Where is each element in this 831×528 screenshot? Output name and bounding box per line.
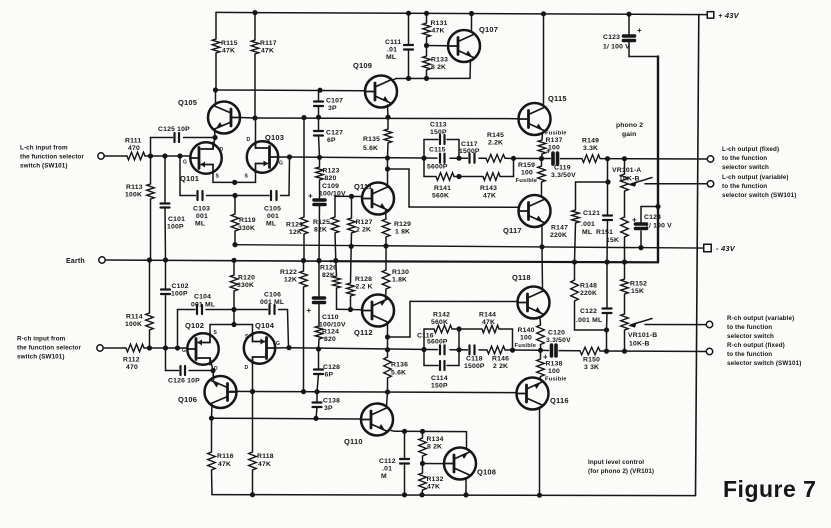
- resistor R152: [621, 279, 629, 294]
- wire C121 to earth: [606, 220, 609, 262]
- wire C112 top: [404, 431, 406, 458]
- wire Q104 source up: [252, 325, 254, 335]
- wire Q106 emitter up: [212, 371, 215, 380]
- svg-text:Q109: Q109: [353, 61, 372, 70]
- capacitor C120 (electrolytic): [550, 345, 554, 356]
- svg-text:C111: C111: [385, 39, 401, 46]
- resistor R126: [333, 276, 341, 288]
- wire C104 left: [178, 309, 196, 311]
- svg-text:S: S: [216, 174, 220, 180]
- svg-text:.001 ML: .001 ML: [576, 317, 602, 324]
- wire R127 bottom: [350, 233, 352, 246]
- wire C114 right: [447, 365, 459, 367]
- svg-text:R111: R111: [125, 138, 141, 145]
- wire C138 bottom stub: [316, 407, 317, 418]
- svg-text:R140: R140: [518, 327, 535, 334]
- svg-text:560K: 560K: [432, 193, 449, 200]
- svg-text:R131: R131: [431, 20, 448, 27]
- svg-text:L-ch input from: L-ch input from: [20, 145, 68, 152]
- resistor R146: [487, 346, 505, 354]
- wire C126 right: [189, 370, 213, 372]
- svg-text:82K: 82K: [314, 227, 327, 234]
- node R127/R128 -43V: [349, 244, 354, 249]
- svg-text:R144: R144: [479, 312, 496, 319]
- wire branch down: [512, 329, 514, 350]
- wire branch up: [513, 158, 515, 176]
- svg-text:R122: R122: [280, 269, 297, 276]
- wire C106 right: [279, 309, 288, 311]
- wire node to C119: [542, 158, 551, 160]
- capacitor C106: [268, 305, 270, 314]
- resistor R131: [423, 23, 431, 37]
- wire Q101 source down: [212, 174, 214, 183]
- wire R121 to earth: [303, 234, 305, 261]
- node network right: [511, 156, 516, 161]
- wire C118 to R146: [479, 349, 487, 351]
- transistor Q105: [208, 102, 240, 134]
- node R128 bottom: [348, 307, 353, 312]
- node FET sources lower: [231, 322, 236, 327]
- terminal L-ch output fixed: [707, 156, 713, 162]
- wire main signal line L: [290, 157, 438, 158]
- node R121 tap: [301, 115, 306, 120]
- svg-text:M: M: [381, 473, 387, 480]
- wire C122 node down: [606, 330, 608, 351]
- wire C107 top stub: [318, 90, 320, 100]
- wire C119 to R149: [561, 158, 583, 160]
- svg-text:to the function: to the function: [722, 183, 767, 190]
- svg-text:1/ 100 V: 1/ 100 V: [645, 223, 672, 230]
- node C121 earth: [604, 259, 609, 264]
- svg-text:Q110: Q110: [344, 437, 363, 446]
- wire R134 top stub: [422, 431, 424, 438]
- wire R132 bottom: [421, 490, 424, 495]
- node R147 earth: [572, 259, 577, 264]
- svg-text:C104: C104: [194, 294, 211, 301]
- wire R151 to earth: [624, 237, 626, 262]
- node R119 -43V: [232, 242, 237, 247]
- wire R142 lead: [424, 328, 434, 330]
- resistor R147: [572, 210, 580, 223]
- wire Q103 source down: [255, 173, 257, 183]
- svg-text:to the function: to the function: [727, 351, 772, 358]
- wire to C125: [150, 138, 152, 157]
- capacitor C101: [161, 202, 170, 204]
- node R119 top: [232, 193, 237, 198]
- node R120 earth: [231, 258, 236, 263]
- wire R118 bottom: [252, 470, 254, 495]
- wire R130 top: [385, 246, 387, 270]
- svg-text:switch (SW101): switch (SW101): [20, 163, 68, 170]
- svg-text:Q105: Q105: [178, 98, 197, 107]
- svg-text:R-ch output (fixed): R-ch output (fixed): [727, 342, 785, 349]
- transistor Q112: [362, 295, 394, 327]
- capacitor C123 (electrolytic): [624, 34, 635, 38]
- node C107 top: [317, 88, 322, 93]
- capacitor C103: [196, 191, 198, 200]
- svg-text:10K-B: 10K-B: [629, 341, 650, 348]
- node Q117/Q118 -43V: [539, 244, 544, 249]
- svg-text:+ 43V: + 43V: [718, 11, 740, 20]
- wire C107 bottom stub: [318, 106, 320, 117]
- svg-text:(for phono 2) (VR101): (for phono 2) (VR101): [588, 468, 654, 475]
- svg-text:S: S: [214, 330, 218, 336]
- resistor R138 (fusible): [537, 359, 545, 377]
- svg-text:selector switch: selector switch: [727, 333, 774, 340]
- wire C125 to Q105 emitter node: [184, 137, 216, 139]
- wire C103 stub down: [179, 156, 181, 196]
- svg-text:C112: C112: [379, 458, 396, 465]
- wire R129 bottom: [385, 237, 387, 246]
- svg-text:R159: R159: [518, 162, 535, 169]
- svg-text:82K: 82K: [322, 272, 335, 279]
- svg-text:C122: C122: [580, 308, 597, 315]
- svg-text:001 ML: 001 ML: [191, 302, 215, 309]
- wire R113 top: [150, 156, 152, 184]
- wire Q108 collector: [465, 478, 467, 495]
- wire C120 to R150: [559, 350, 580, 352]
- wire Q105 collector to Q109 base: [216, 89, 366, 92]
- wire R148 bottom: [574, 301, 576, 330]
- svg-text:R147: R147: [551, 225, 568, 232]
- svg-text:R146: R146: [492, 356, 509, 363]
- svg-text:to the function: to the function: [727, 324, 772, 331]
- capacitor C105: [270, 191, 272, 200]
- wire Q107 collector: [471, 14, 473, 32]
- svg-text:ML: ML: [582, 229, 592, 236]
- wire R152 top: [624, 262, 626, 279]
- wire R123 to C109: [319, 180, 321, 199]
- wire R152 to VR: [624, 294, 626, 314]
- wire C126 corner: [165, 348, 167, 371]
- node C124 -43V: [638, 245, 643, 250]
- wire Q104 gate: [275, 347, 289, 349]
- svg-text:15K: 15K: [631, 288, 644, 295]
- wire R147 to earth: [575, 223, 576, 262]
- wire Q107 base: [427, 45, 449, 47]
- wire C124 bottom: [640, 231, 642, 248]
- node VR101-A top: [622, 156, 627, 161]
- svg-text:R128: R128: [355, 276, 372, 283]
- wire R135 top: [387, 117, 389, 129]
- capacitor C116: [439, 345, 441, 354]
- transistor Q108: [444, 448, 476, 480]
- svg-text:Q118: Q118: [512, 273, 531, 282]
- svg-text:100: 100: [548, 368, 560, 375]
- node Q112 collector: [385, 334, 390, 339]
- node network right lower: [510, 348, 515, 353]
- wire R116 bottom: [211, 470, 214, 495]
- wire R139 bottom: [541, 182, 543, 196]
- svg-text:C114: C114: [431, 375, 448, 382]
- svg-text:C101: C101: [168, 216, 185, 223]
- svg-text:3.3/50V: 3.3/50V: [551, 172, 576, 179]
- node C101 junction: [162, 153, 167, 158]
- svg-text:47K: 47K: [258, 461, 271, 468]
- node C109 earth: [316, 258, 321, 263]
- wire R134 bottom: [422, 456, 424, 464]
- wire R116 top stub: [211, 418, 213, 452]
- svg-text:C124: C124: [644, 214, 661, 221]
- node R134 top: [420, 429, 425, 434]
- node C121 top: [605, 156, 610, 161]
- wire R141 to R143: [454, 176, 483, 178]
- node C138 top: [314, 389, 319, 394]
- node network left lower: [421, 347, 426, 352]
- capacitor C119 (electrolytic): [551, 153, 555, 164]
- svg-text:5600P: 5600P: [427, 164, 448, 171]
- svg-text:C106: C106: [264, 292, 281, 299]
- wire R125 bottom: [334, 233, 337, 261]
- transistor Q116: [517, 378, 549, 410]
- svg-text:Fusible: Fusible: [516, 178, 538, 184]
- wire Q101 source to node: [213, 181, 235, 183]
- wire C116 right stub: [458, 329, 460, 350]
- svg-text:3.3K: 3.3K: [583, 145, 598, 152]
- node R140/R138: [538, 348, 543, 353]
- resistor R119: [231, 214, 239, 231]
- capacitor C104: [196, 305, 198, 314]
- svg-text:100/10V: 100/10V: [319, 322, 346, 329]
- capacitor C109 (electrolytic): [314, 198, 325, 202]
- node C124 earth line: [655, 204, 660, 209]
- svg-text:C110: C110: [322, 314, 339, 321]
- wire C124 jog: [641, 206, 658, 208]
- resistor R120: [230, 275, 238, 291]
- svg-text:C119: C119: [554, 165, 571, 172]
- svg-text:selector switch (SW101): selector switch (SW101): [722, 192, 796, 199]
- svg-text:.001: .001: [581, 221, 595, 228]
- capacitor C117: [468, 154, 470, 163]
- resistor R144: [482, 325, 499, 333]
- wire Q111 collector stub: [387, 158, 389, 186]
- wire R119 top stub: [234, 196, 236, 215]
- svg-text:C120: C120: [548, 330, 565, 337]
- svg-text:8 2K: 8 2K: [427, 444, 442, 451]
- svg-text:R151: R151: [596, 229, 613, 236]
- resistor R142: [434, 325, 452, 333]
- resistor R112: [126, 344, 144, 352]
- node Q107 base: [424, 43, 429, 48]
- resistor R121: [300, 217, 308, 234]
- svg-text:100P: 100P: [167, 224, 184, 231]
- wire C109 to earth: [318, 205, 321, 261]
- wire R145 to R137 node: [505, 157, 542, 159]
- wire Q118 collector up: [541, 247, 544, 290]
- wire R118 top stub: [252, 392, 254, 453]
- wire Q110 collector: [391, 430, 395, 433]
- wire earth rail left: [105, 260, 330, 261]
- node network mid lower: [456, 347, 461, 352]
- svg-text:C115: C115: [429, 147, 446, 154]
- resistor R123: [316, 167, 324, 180]
- wire R141 left stub: [423, 158, 425, 176]
- node R117 rail: [252, 10, 257, 15]
- svg-text:Q117: Q117: [503, 226, 522, 235]
- wire C110 top: [318, 261, 320, 297]
- wire jog to Q117 base h: [388, 168, 410, 170]
- capacitor C127: [314, 130, 323, 132]
- wire R128 top stub: [350, 246, 353, 283]
- wire R122 bottom: [303, 287, 305, 392]
- svg-text:ML: ML: [195, 221, 205, 228]
- wire -43V rail: [235, 245, 703, 248]
- wire C122 bottom: [606, 313, 609, 330]
- wire C102 top: [165, 260, 167, 289]
- resistor R128: [347, 283, 355, 296]
- wire C113 right: [447, 139, 459, 141]
- svg-text:R138: R138: [546, 361, 563, 368]
- resistor R130: [382, 270, 390, 289]
- terminal L-ch input: [98, 153, 104, 159]
- wire R149 to terminal: [600, 158, 707, 160]
- node R127 top: [349, 194, 354, 199]
- wire Q105 collector up: [215, 90, 217, 105]
- node C103 junction: [177, 153, 182, 158]
- node Q106 emitter / Q102 drain: [210, 368, 215, 373]
- node Q108 rail: [463, 492, 468, 497]
- resistor R141: [436, 173, 454, 181]
- svg-text:Q103: Q103: [265, 133, 284, 142]
- svg-text:001: 001: [267, 213, 279, 220]
- svg-text:47K: 47K: [427, 484, 440, 491]
- wire Q116 collector down: [539, 407, 541, 495]
- wire emitter line to Q115 base: [255, 117, 518, 120]
- capacitor C111: [404, 44, 413, 46]
- wire R113 to earth: [150, 199, 152, 260]
- svg-text:D: D: [247, 137, 251, 143]
- svg-text:47K: 47K: [432, 28, 445, 35]
- wire Q109 emitter: [387, 105, 390, 117]
- svg-text:D: D: [214, 366, 218, 372]
- svg-text:2 2K: 2 2K: [356, 227, 371, 234]
- svg-text:R133: R133: [431, 57, 448, 64]
- wire C127 bottom stub: [319, 136, 320, 158]
- node C112 rail: [402, 492, 407, 497]
- capacitor C114: [439, 361, 441, 370]
- node R137/R139: [539, 156, 544, 161]
- svg-text:6P: 6P: [327, 137, 336, 144]
- node network left: [421, 156, 426, 161]
- svg-text:47K: 47K: [218, 461, 231, 468]
- node C122 bottom: [604, 327, 609, 332]
- terminal +43V: [707, 12, 714, 19]
- resistor R127: [348, 218, 356, 233]
- wire VR101A to R151: [624, 191, 626, 217]
- svg-text:C109: C109: [322, 183, 339, 190]
- terminal L-ch output variable: [707, 181, 713, 187]
- wire C102 bottom: [165, 294, 167, 348]
- svg-text:100: 100: [520, 335, 532, 342]
- svg-text:ML: ML: [386, 54, 396, 61]
- svg-text:3 3K: 3 3K: [584, 364, 599, 371]
- svg-text:R129: R129: [394, 221, 411, 228]
- node Q105 collector: [213, 87, 218, 92]
- node Q111 collector: [385, 166, 390, 171]
- node R118 rail: [250, 492, 255, 497]
- transistor Q102 (FET): [187, 333, 218, 364]
- wire VR101A wiper: [645, 183, 707, 185]
- wire input to R111: [104, 155, 127, 157]
- capacitor C124 (electrolytic): [636, 222, 647, 226]
- wire R112 to Q102 gate: [144, 347, 188, 349]
- svg-text:Q112: Q112: [354, 328, 373, 337]
- wire Q115 collector: [543, 14, 545, 105]
- wire R117 bottom: [254, 54, 256, 118]
- svg-text:C128: C128: [323, 364, 340, 371]
- wire +43V bottom rail: [212, 495, 696, 496]
- wire C101 to earth: [164, 209, 167, 261]
- wire R114 top: [149, 260, 151, 313]
- svg-text:100K: 100K: [125, 321, 142, 328]
- wire R132 top: [422, 464, 424, 474]
- wire C113 right stub: [458, 140, 460, 159]
- node R132 rail: [419, 492, 424, 497]
- node Q107 collector rail: [469, 11, 474, 16]
- node Q104 gate: [286, 345, 291, 350]
- wire R117 top: [254, 13, 256, 40]
- resistor R124: [315, 326, 323, 339]
- wire R122 top: [303, 261, 305, 272]
- wire VR101B wiper: [645, 324, 706, 326]
- resistor R129: [382, 219, 390, 237]
- wire Q111 base line: [335, 195, 363, 197]
- capacitor C110 (electrolytic): [314, 296, 325, 300]
- resistor R136: [384, 357, 392, 378]
- wire Q107 emitter line: [396, 77, 470, 79]
- capacitor C122: [603, 307, 612, 309]
- node R116 top: [209, 416, 214, 421]
- node Q105 emitter / Q101 drain: [212, 135, 217, 140]
- svg-text:47K: 47K: [482, 319, 495, 326]
- wire C114 left stub: [423, 350, 425, 366]
- svg-text:R118: R118: [257, 453, 274, 460]
- wire C117 to R145: [479, 157, 486, 159]
- svg-text:150P: 150P: [431, 383, 448, 390]
- svg-text:G: G: [182, 348, 186, 354]
- wire C123 jog: [629, 56, 658, 58]
- transistor Q106: [205, 376, 237, 408]
- wire R120 bottom: [233, 291, 235, 310]
- wire C106 left: [234, 309, 268, 311]
- wire C114 right stub: [458, 350, 460, 366]
- capacitor C121: [603, 214, 612, 216]
- wire node to C120: [541, 349, 549, 351]
- wire R128 bottom stub: [350, 296, 352, 310]
- svg-text:R124: R124: [322, 329, 339, 336]
- svg-text:2 2K: 2 2K: [493, 363, 508, 370]
- wire C113 left stub: [423, 140, 425, 159]
- wire Q106 collector down: [211, 405, 214, 419]
- wire R146 to R140 node: [505, 349, 541, 351]
- node C111 rail: [406, 11, 411, 16]
- wire R142 to R144: [452, 328, 482, 330]
- svg-text:selector switch: selector switch: [722, 164, 769, 171]
- svg-text:C113: C113: [430, 122, 447, 129]
- svg-text:+: +: [307, 306, 312, 315]
- wire C103 left: [180, 195, 196, 197]
- svg-text:3.3/50V: 3.3/50V: [546, 337, 571, 344]
- svg-text:G: G: [276, 341, 280, 347]
- wire input to R112: [103, 347, 126, 349]
- resistor R149: [582, 155, 600, 163]
- transistor Q110: [361, 404, 393, 436]
- node Q105 base / Q103 drain: [252, 115, 257, 120]
- svg-text:100K: 100K: [125, 192, 142, 199]
- transistor Q111: [362, 183, 394, 215]
- svg-text:the function selector: the function selector: [17, 345, 81, 352]
- wire R138 top: [540, 350, 542, 359]
